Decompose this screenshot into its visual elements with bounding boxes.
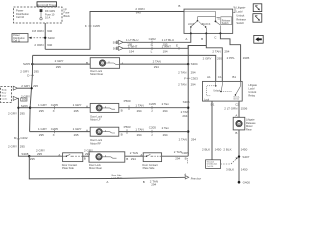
door lock motor side M5 <box>89 152 125 170</box>
svg-text:295: 295 <box>39 109 44 113</box>
svg-text:1450: 1450 <box>241 148 248 152</box>
svg-text:194: 194 <box>129 49 134 53</box>
svg-text:Rear: Rear <box>246 128 252 132</box>
svg-text:295: 295 <box>37 152 42 156</box>
svg-text:Unlock: Unlock <box>213 90 221 92</box>
svg-text:2 Tan: 2 Tan <box>162 102 170 106</box>
svg-text:M: M <box>98 155 100 159</box>
ground distribution ref box <box>206 157 238 168</box>
svg-text:Motor: Motor <box>246 124 253 128</box>
fuse F10 <box>40 9 56 20</box>
svg-text:G400: G400 <box>243 181 251 185</box>
svg-text:B: B <box>84 156 86 160</box>
svg-text:Cell 10: Cell 10 <box>16 15 25 19</box>
liftgate release motor M4 <box>233 117 256 131</box>
svg-text:P500: P500 <box>124 99 131 103</box>
svg-text:K: K <box>85 24 87 28</box>
svg-text:A: A <box>58 153 60 157</box>
svg-text:Lock/: Lock/ <box>248 87 254 91</box>
svg-text:295: 295 <box>34 69 39 73</box>
svg-text:C202: C202 <box>20 136 28 140</box>
svg-text:Plate Side: Plate Side <box>143 166 155 170</box>
svg-text:Liftgate: Liftgate <box>248 83 257 87</box>
svg-text:Motor RF: Motor RF <box>90 141 101 145</box>
door lock motor RF M3 <box>90 127 119 145</box>
svg-text:2 GRY: 2 GRY <box>8 145 17 149</box>
wire TAN switch B to relay C1 <box>206 33 229 81</box>
svg-text:B: B <box>126 157 128 161</box>
svg-text:Unlock: Unlock <box>236 13 245 17</box>
fuse block dashed box <box>14 7 71 23</box>
svg-text:Switch: Switch <box>236 21 244 25</box>
node S306 splice LF row <box>181 100 190 118</box>
svg-text:640: 640 <box>47 43 52 47</box>
svg-text:295: 295 <box>20 112 25 116</box>
svg-text:Plate Side: Plate Side <box>62 166 74 170</box>
wire LF motor to S306 <box>119 99 188 113</box>
svg-text:A: A <box>184 172 186 176</box>
svg-text:295: 295 <box>74 109 79 113</box>
svg-text:2 GRY: 2 GRY <box>203 57 212 61</box>
svg-text:640: 640 <box>47 29 52 33</box>
offpage arrow T2 <box>13 94 30 156</box>
svg-text:S203: S203 <box>48 36 55 40</box>
svg-text:M: M <box>98 131 100 134</box>
svg-text:Motor Rear: Motor Rear <box>90 72 103 76</box>
svg-text:294: 294 <box>137 133 142 137</box>
svg-text:295: 295 <box>30 157 35 161</box>
svg-text:C1: C1 <box>218 75 222 79</box>
svg-text:Cell 14: Cell 14 <box>207 166 214 168</box>
wire WHT pin B row <box>123 43 206 53</box>
svg-text:Block: Block <box>64 14 71 18</box>
svg-text:Hot At All Times: Hot At All Times <box>37 3 56 7</box>
svg-text:Liftgate: Liftgate <box>246 117 255 121</box>
svg-text:294: 294 <box>191 83 196 87</box>
offpage ref box left <box>1 86 12 102</box>
svg-text:294: 294 <box>154 65 159 69</box>
svg-text:294: 294 <box>131 157 136 161</box>
svg-text:2 TAN: 2 TAN <box>212 49 220 53</box>
wire LF motor row <box>30 103 90 113</box>
svg-text:LOCK: LOCK <box>188 24 195 26</box>
offpage arrow 50F <box>113 46 123 50</box>
node 2 GRY 295 label left <box>8 112 25 116</box>
svg-text:1506: 1506 <box>241 107 248 111</box>
svg-text:294: 294 <box>137 109 142 113</box>
svg-text:1 GRY: 1 GRY <box>73 103 82 107</box>
svg-text:S306: S306 <box>183 100 190 104</box>
node S308 splice bottom <box>21 152 35 161</box>
wire contact2 to TAN bus <box>162 150 190 161</box>
wire ORN to switch feed <box>45 12 184 50</box>
svg-text:C205: C205 <box>93 24 101 28</box>
wire bottom stub to rear door <box>29 156 201 186</box>
svg-text:A: A <box>106 180 108 184</box>
svg-text:M: M <box>98 107 100 110</box>
node S206 splice <box>29 107 31 109</box>
svg-text:Motor LF: Motor LF <box>90 118 101 122</box>
svg-text:C303: C303 <box>191 76 199 80</box>
svg-text:Release: Release <box>236 17 246 21</box>
svg-text:194: 194 <box>163 49 168 53</box>
svg-text:B: B <box>121 108 123 112</box>
svg-text:Locks: Locks <box>2 98 7 100</box>
svg-text:1 TAN: 1 TAN <box>135 127 143 131</box>
door lock switch SW1 <box>184 9 233 41</box>
svg-text:295: 295 <box>22 98 27 102</box>
svg-text:1 GRY: 1 GRY <box>38 103 47 107</box>
svg-text:M: M <box>101 61 103 65</box>
svg-text:2 LT GRN: 2 LT GRN <box>224 107 237 111</box>
wire GRY left bus <box>20 55 39 131</box>
svg-text:294: 294 <box>175 157 180 161</box>
svg-text:1 WHT: 1 WHT <box>128 44 138 48</box>
svg-text:295: 295 <box>20 145 25 149</box>
svg-text:Lock/: Lock/ <box>236 10 242 14</box>
wire rear motor row GRY <box>32 59 90 69</box>
svg-text:0.8 ORN: 0.8 ORN <box>32 29 44 33</box>
svg-text:Distribution: Distribution <box>13 37 25 40</box>
svg-text:2 GRY: 2 GRY <box>55 59 64 63</box>
svg-text:C205: C205 <box>51 103 59 107</box>
svg-text:295: 295 <box>39 133 44 137</box>
wire BLK relay D1 down <box>202 101 222 160</box>
svg-text:2 BLK: 2 BLK <box>202 148 210 152</box>
svg-text:2 Tan: 2 Tan <box>162 126 170 130</box>
svg-text:1 GRY: 1 GRY <box>73 127 82 131</box>
node Hot At All Times label <box>37 2 57 7</box>
svg-text:UNLOCK: UNLOCK <box>201 24 211 26</box>
svg-text:295: 295 <box>74 133 79 137</box>
svg-text:2 BLK: 2 BLK <box>223 148 231 152</box>
wire PPL switch C to relay B1 <box>220 33 249 81</box>
svg-text:2 ORN: 2 ORN <box>34 43 43 47</box>
svg-text:S304: S304 <box>191 62 198 66</box>
svg-text:A: A <box>235 113 237 117</box>
svg-text:M: M <box>238 122 240 126</box>
node C202 connector pin M <box>14 136 28 140</box>
node C205 connector pin K <box>85 24 101 28</box>
svg-text:Motor Rear: Motor Rear <box>89 166 102 170</box>
svg-text:Liftgate-: Liftgate- <box>236 6 246 10</box>
svg-text:Rear door: Rear door <box>191 179 201 181</box>
wire branch to S206 <box>17 104 30 109</box>
svg-text:294: 294 <box>163 109 168 113</box>
node 0.8 ORN 640 label on feed <box>135 7 144 15</box>
svg-text:C205: C205 <box>149 102 157 106</box>
wire rear motor to S304 TAN <box>120 59 189 68</box>
svg-text:S205: S205 <box>23 62 30 66</box>
door lock motor rear M1 <box>90 58 123 76</box>
svg-text:A: A <box>140 153 142 157</box>
svg-text:294: 294 <box>191 138 196 142</box>
svg-text:B: B <box>185 157 187 161</box>
svg-text:294: 294 <box>182 114 187 118</box>
node footnote B dashes <box>185 157 188 164</box>
node S203 splice <box>44 36 55 40</box>
door lock motor LF M2 <box>90 103 119 121</box>
svg-text:3 BLK: 3 BLK <box>226 167 234 171</box>
svg-text:2 GRY: 2 GRY <box>21 84 30 88</box>
svg-text:Door: Door <box>2 94 7 97</box>
wire ORN 640 from fuse <box>44 23 46 49</box>
svg-text:B: B <box>235 131 237 135</box>
svg-text:B: B <box>178 4 180 8</box>
svg-text:S407: S407 <box>242 155 249 159</box>
wire RF motor row <box>30 127 91 137</box>
door contact plate side SW2 <box>62 153 83 170</box>
svg-text:1450: 1450 <box>215 148 222 152</box>
svg-text:Cell 11: Cell 11 <box>13 40 21 42</box>
svg-text:Power: Power <box>13 34 20 37</box>
svg-text:X: X <box>53 109 55 113</box>
node 0.8 ORN 640 label <box>32 29 53 33</box>
svg-text:Release: Release <box>246 121 256 125</box>
svg-text:294: 294 <box>224 49 229 53</box>
svg-text:C305: C305 <box>182 151 190 155</box>
svg-text:294: 294 <box>191 70 196 74</box>
svg-text:Unlock: Unlock <box>248 90 257 94</box>
svg-text:B: B <box>121 132 123 136</box>
offpage arrow T1 <box>13 84 38 90</box>
offpage arrow 50B <box>113 40 123 44</box>
svg-text:1 LT BLU: 1 LT BLU <box>162 38 174 42</box>
icon link 1 <box>253 4 262 12</box>
svg-text:295: 295 <box>56 65 61 69</box>
svg-text:50F: 50F <box>113 47 118 51</box>
svg-text:1 GRY: 1 GRY <box>38 127 47 131</box>
svg-text:A1: A1 <box>207 75 211 79</box>
svg-text:2 GRY: 2 GRY <box>8 112 17 116</box>
svg-text:2 TAN: 2 TAN <box>130 151 138 155</box>
svg-text:294: 294 <box>163 133 168 137</box>
svg-text:295: 295 <box>217 57 222 61</box>
svg-text:A: A <box>121 61 123 65</box>
svg-text:Relay: Relay <box>248 93 255 97</box>
svg-text:295: 295 <box>33 84 38 88</box>
wire TAN bus vertical <box>178 46 198 157</box>
wire LT BLU pin A <box>123 33 191 47</box>
svg-text:P503: P503 <box>124 125 131 129</box>
node 3 BLK 1450 label <box>226 167 248 171</box>
svg-text:2 TAN: 2 TAN <box>178 83 186 87</box>
node S407 splice <box>238 155 250 159</box>
svg-text:S206: S206 <box>21 104 28 108</box>
node G400 ground <box>238 181 251 185</box>
svg-text:Switch: Switch <box>222 22 229 25</box>
svg-text:B: B <box>86 61 88 65</box>
svg-text:50B: 50B <box>113 41 118 45</box>
svg-text:B: B <box>201 37 203 41</box>
svg-text:C205: C205 <box>149 126 157 130</box>
svg-text:2 TAN: 2 TAN <box>178 70 186 74</box>
wire bottom row <box>29 148 62 157</box>
relay K1 liftgate lock unlock <box>203 75 258 107</box>
svg-text:D1: D1 <box>211 102 215 106</box>
svg-text:1 LT BLU: 1 LT BLU <box>126 38 138 42</box>
svg-text:C205: C205 <box>51 127 59 131</box>
node S205 splice <box>23 62 34 66</box>
svg-text:1 WHT: 1 WHT <box>162 44 172 48</box>
wire motor to contact2 TAN <box>125 151 143 161</box>
svg-text:Rear: Rear <box>2 91 7 94</box>
wire GRY bus top <box>33 55 223 81</box>
icon link 2 <box>253 14 262 23</box>
svg-text:2 TAN: 2 TAN <box>153 59 161 63</box>
svg-text:1905: 1905 <box>243 56 250 60</box>
node S304 splice <box>187 62 198 66</box>
svg-text:10 A: 10 A <box>45 16 50 20</box>
svg-text:Chime: Chime <box>233 99 240 101</box>
svg-text:B1: B1 <box>232 75 236 79</box>
svg-text:1 TAN: 1 TAN <box>135 103 143 107</box>
node liftgate release switch label <box>233 6 246 26</box>
svg-text:295: 295 <box>85 152 90 156</box>
wire BLK motor to ground <box>223 130 247 182</box>
svg-text:640: 640 <box>136 11 141 15</box>
svg-text:F: F <box>184 76 186 80</box>
svg-text:S308: S308 <box>21 152 28 156</box>
node 2 ORN 640 label <box>34 43 52 47</box>
icon back arrow <box>254 35 263 43</box>
svg-text:Lock: Lock <box>204 100 210 102</box>
svg-text:2 TAN: 2 TAN <box>179 138 187 142</box>
svg-text:2 PPL: 2 PPL <box>227 56 236 60</box>
svg-text:1450: 1450 <box>241 167 248 171</box>
svg-text:B: B <box>143 180 145 184</box>
node 2 GRY 295 label lower <box>8 145 25 149</box>
svg-text:Lock Motor: Lock Motor <box>112 176 123 179</box>
svg-text:A: A <box>86 105 88 109</box>
svg-text:A: A <box>185 37 187 41</box>
wire LT GRN relay C2 to motor <box>224 101 247 117</box>
node RF row junction <box>179 130 197 141</box>
wire RF motor to bus <box>119 125 188 137</box>
power distribution cell 11 ref box <box>12 34 44 43</box>
svg-text:A: A <box>86 129 88 133</box>
svg-text:X: X <box>53 133 55 137</box>
svg-text:E: E <box>176 43 178 47</box>
door contact plate side SW3 <box>142 153 161 170</box>
svg-text:294: 294 <box>151 183 156 187</box>
wire contact to motor <box>83 148 93 160</box>
svg-text:C202: C202 <box>149 37 157 41</box>
